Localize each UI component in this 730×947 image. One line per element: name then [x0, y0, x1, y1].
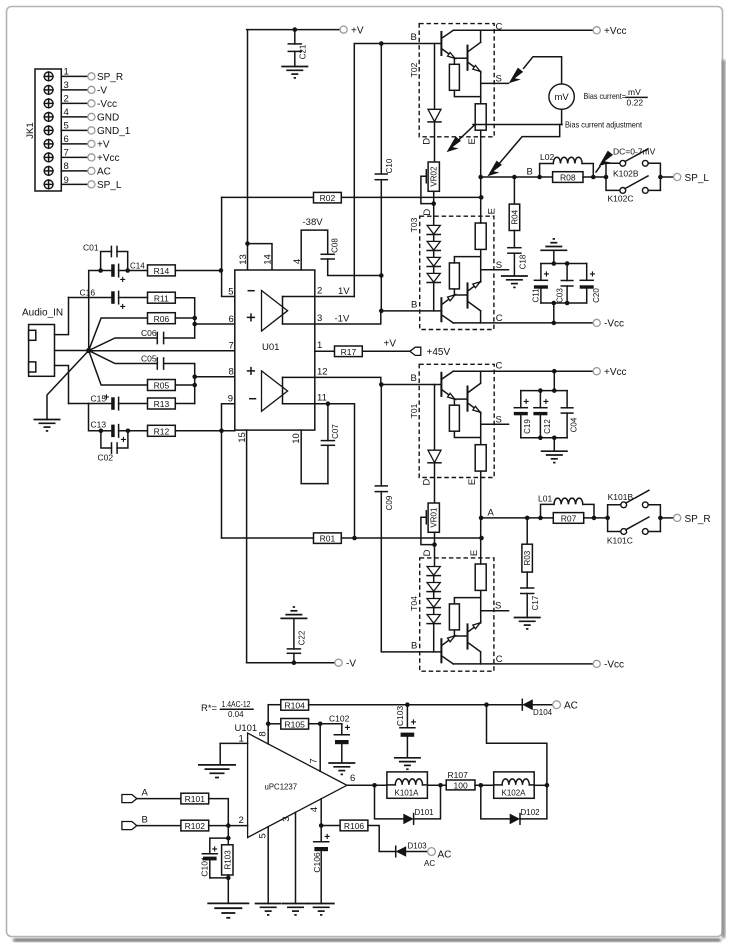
- svg-text:S: S: [495, 601, 501, 612]
- svg-text:A: A: [142, 788, 149, 799]
- svg-text:3: 3: [64, 80, 69, 91]
- terminal -Vcc (upper): [593, 319, 600, 326]
- wire pin11 output row: [283, 404, 355, 538]
- relay coil K102A: [494, 772, 535, 798]
- wire C19/C12/C04 top bus: [521, 390, 567, 392]
- wire R12 to lower feedback node: [175, 430, 235, 432]
- resistor R107: [446, 770, 494, 791]
- wire T04 emitter to S: [481, 611, 509, 623]
- svg-text:K102C: K102C: [608, 194, 634, 204]
- wire VR02 to T03 diode chain: [433, 191, 435, 225]
- pin 7 vertical: [319, 724, 321, 772]
- svg-text:VR01: VR01: [430, 507, 439, 528]
- svg-text:-38V: -38V: [303, 217, 324, 228]
- transistor T01 Q1: [441, 371, 455, 399]
- svg-text:R104: R104: [285, 700, 306, 710]
- JK1 pin contact symbols (circle-plus): [44, 72, 53, 189]
- wire T03 collector rail to -Vcc: [453, 322, 593, 324]
- wire C11/C03/C20 top bus: [541, 263, 587, 265]
- svg-text:R14: R14: [154, 266, 170, 276]
- wire pin3 output -1V to T03 base: [283, 311, 381, 324]
- relay switch K101B: [605, 490, 660, 531]
- svg-text:4: 4: [292, 259, 303, 264]
- wire bias current adjustment callout: [473, 124, 562, 126]
- svg-text:4: 4: [309, 807, 320, 812]
- wire R17 to +45V flag: [362, 350, 410, 352]
- capacitor C17: [521, 572, 540, 617]
- capacitor C18: [508, 231, 528, 277]
- terminal +Vcc (top): [593, 27, 600, 34]
- svg-text:K102A: K102A: [502, 789, 527, 798]
- node L02 left: [537, 175, 542, 180]
- wire C15 node down to C13 row: [89, 404, 101, 431]
- label R* formula: [201, 700, 253, 719]
- svg-text:L01: L01: [538, 494, 552, 504]
- wire output node row: [481, 176, 540, 178]
- capacitor C19: [514, 391, 532, 438]
- diode chain T04 (4 diodes): [427, 567, 440, 652]
- wire T03 base row: [381, 310, 442, 312]
- svg-text:+: +: [212, 844, 218, 855]
- op-amp A output bar: [282, 297, 284, 325]
- resistor R104: [268, 700, 522, 711]
- node R04 tap: [512, 175, 517, 180]
- svg-text:K101A: K101A: [395, 789, 420, 798]
- svg-text:+: +: [121, 435, 127, 446]
- probe arrow at S: [509, 68, 523, 84]
- node C13/C02 right: [126, 429, 131, 434]
- ground below C102: [328, 763, 355, 774]
- svg-text:5: 5: [258, 833, 269, 838]
- svg-text:2: 2: [317, 286, 322, 297]
- wire pin6 output row: [347, 784, 387, 786]
- node R06/bus: [192, 316, 197, 321]
- svg-text:L02: L02: [540, 152, 554, 162]
- resistor R101: [181, 793, 228, 825]
- connector JK1 body: [35, 69, 61, 191]
- wire T01 base row: [381, 384, 440, 386]
- JK1 net labels: [97, 72, 131, 191]
- svg-text:+: +: [120, 275, 126, 286]
- transistor T02 dashed box: [419, 24, 494, 137]
- frame bottom shadow: [13, 938, 721, 942]
- svg-text:6: 6: [64, 134, 69, 145]
- node pin6/bus: [192, 322, 197, 327]
- wire T01 emitter to S: [481, 412, 509, 424]
- svg-text:5: 5: [228, 287, 233, 298]
- pin 4 vertical: [320, 799, 322, 841]
- svg-text:R106: R106: [344, 821, 365, 831]
- capacitor C07: [321, 404, 339, 484]
- wire R11 to input bus upper: [175, 298, 194, 338]
- wire bottom bus to ground: [553, 438, 555, 451]
- wire star to pin7: [89, 350, 235, 352]
- wire star to ground: [47, 351, 89, 420]
- svg-text:0.22: 0.22: [627, 98, 644, 108]
- svg-text:GND: GND: [97, 113, 119, 124]
- capacitor C16: [69, 288, 148, 314]
- svg-text:C04: C04: [570, 417, 579, 432]
- probe arrow DC measurement: [599, 151, 613, 167]
- svg-text:+: +: [411, 718, 417, 729]
- resistor R103: [222, 845, 233, 878]
- node pin11 tap on R01 row: [352, 536, 357, 541]
- svg-text:SP_L: SP_L: [685, 173, 710, 184]
- wire lower feedback vertical pin9 to R01 row: [222, 404, 235, 538]
- svg-text:D101: D101: [415, 808, 435, 817]
- probe arrow at VR02: [447, 137, 461, 153]
- wire feedback vertical to R14 node and pin5: [222, 197, 235, 296]
- wire C10 bus upper: [380, 44, 382, 175]
- wire VR01 to T04 diode chain: [434, 532, 436, 566]
- svg-text:13: 13: [238, 254, 249, 265]
- svg-text:C17: C17: [531, 595, 540, 610]
- node pin4/R106: [319, 823, 324, 828]
- node R104/C103: [405, 702, 410, 707]
- ground pin5: [255, 904, 282, 915]
- transistor T04 dashed box: [420, 558, 494, 671]
- svg-text:-Vcc: -Vcc: [604, 660, 624, 671]
- svg-text:C09: C09: [385, 495, 394, 510]
- wire node A row: [481, 517, 541, 519]
- svg-text:+V: +V: [97, 140, 110, 151]
- resistor R08: [540, 172, 606, 183]
- meter mV: [549, 84, 574, 109]
- wire R05 row: [89, 351, 148, 386]
- svg-text:C22: C22: [298, 630, 307, 645]
- capacitor C12: [533, 391, 552, 438]
- ground pin2 network: [207, 903, 249, 917]
- wire C11/C03/C20 bottom bus: [541, 302, 587, 304]
- wire pin1 to ground: [219, 743, 221, 764]
- node R05/bus: [192, 383, 197, 388]
- resistor T01 emitter: [475, 424, 486, 518]
- node B rail / C10 bus: [379, 41, 384, 46]
- transistor T02 Q2: [455, 30, 481, 71]
- svg-text:B: B: [411, 641, 417, 652]
- svg-text:3: 3: [281, 816, 292, 821]
- svg-text:B: B: [411, 300, 417, 311]
- node star junction: [86, 348, 91, 353]
- node R01 row / E vertical: [479, 536, 484, 541]
- svg-text:3: 3: [317, 313, 322, 324]
- svg-text:R*=: R*=: [201, 703, 218, 714]
- terminal +V: [340, 26, 347, 33]
- capacitor C106: [312, 832, 331, 904]
- svg-text:U01: U01: [262, 342, 279, 353]
- svg-text:SP_R: SP_R: [685, 514, 711, 525]
- capacitor C101: [200, 838, 229, 878]
- svg-text:R04: R04: [510, 209, 519, 224]
- terminal -V: [335, 659, 342, 666]
- node pin13/pin14 jog: [245, 241, 250, 246]
- wire T01 collector rail to +Vcc: [453, 370, 593, 372]
- wire R05 to bus: [175, 384, 194, 386]
- resistor T03 base-emitter: [449, 257, 480, 295]
- svg-text:R103: R103: [223, 850, 232, 870]
- svg-text:-Vcc: -Vcc: [97, 99, 117, 110]
- node pin8/R105: [266, 722, 271, 727]
- svg-text:-V: -V: [346, 659, 356, 670]
- node T01 base / bus: [379, 382, 384, 387]
- pin 3 vertical to ground: [295, 812, 297, 903]
- capacitor C05: [89, 351, 195, 404]
- resistor R02: [314, 192, 342, 203]
- node pin11/C07: [326, 401, 331, 406]
- capacitor C102: [329, 713, 351, 762]
- svg-text:DC=0-7mV: DC=0-7mV: [613, 147, 656, 157]
- wire connector pin1 to C16 row: [55, 298, 69, 335]
- wire C08 to bus: [328, 259, 382, 276]
- terminal +Vcc (lower): [593, 368, 600, 375]
- svg-text:C01: C01: [83, 243, 99, 253]
- wire pin15 to -V rail: [246, 430, 248, 663]
- svg-text:12: 12: [317, 366, 328, 377]
- node A on E vertical: [479, 516, 484, 521]
- wire R14 to feedback node: [175, 270, 221, 272]
- svg-text:R107: R107: [448, 770, 469, 780]
- svg-text:1V: 1V: [338, 286, 350, 297]
- svg-text:+: +: [345, 723, 351, 734]
- capacitor C15: [69, 393, 148, 410]
- terminal SP_R: [674, 514, 681, 521]
- terminal flag +45V: [410, 347, 421, 355]
- svg-text:10: 10: [291, 433, 302, 444]
- input flag A: [122, 788, 181, 803]
- ground below C21: [281, 67, 308, 78]
- svg-text:9: 9: [228, 394, 233, 405]
- wire bottom bus to -Vcc rail: [553, 303, 555, 323]
- svg-text:U101: U101: [235, 723, 258, 734]
- wire T03 emitter to S: [481, 270, 509, 282]
- resistor R07: [541, 513, 608, 524]
- svg-text:+: +: [324, 832, 330, 843]
- svg-text:4: 4: [64, 107, 69, 118]
- svg-text:AC: AC: [564, 701, 578, 712]
- ground C106: [308, 904, 335, 915]
- svg-text:D: D: [422, 549, 433, 556]
- svg-text:D: D: [421, 138, 432, 145]
- svg-text:0.04: 0.04: [228, 710, 244, 719]
- resistor T02 base-emitter: [449, 58, 480, 96]
- resistor R17: [335, 346, 363, 357]
- relay switch K101C: [607, 517, 661, 546]
- node VR01 wiper: [432, 542, 437, 547]
- wire pin10 jog to C07: [301, 430, 328, 484]
- node pin6/D101: [372, 783, 377, 788]
- diode D104: [522, 699, 553, 717]
- svg-text:C15: C15: [91, 394, 107, 404]
- transistor T03 Q1: [441, 295, 455, 323]
- svg-text:2: 2: [239, 815, 244, 826]
- terminal AC (bottom): [428, 848, 436, 856]
- svg-text:D102: D102: [521, 808, 541, 817]
- svg-text:+: +: [523, 397, 529, 408]
- wire R01 to node A vertical: [341, 537, 481, 539]
- svg-text:C10: C10: [385, 158, 394, 173]
- svg-text:R11: R11: [154, 293, 169, 303]
- svg-text:R102: R102: [185, 821, 206, 831]
- resistor R03: [522, 518, 533, 572]
- wire R02 feedback row: [222, 196, 314, 198]
- svg-text:C21: C21: [299, 44, 308, 59]
- svg-text:E: E: [469, 550, 480, 556]
- wire connector pin2 to C15 row: [55, 366, 69, 404]
- resistor R102: [181, 820, 248, 831]
- svg-text:SP_R: SP_R: [97, 72, 123, 83]
- ground below C19/C12/C04: [541, 451, 568, 462]
- svg-text:D: D: [422, 209, 433, 216]
- node C13/C02 left: [99, 429, 104, 434]
- capacitor C13: [91, 420, 148, 447]
- svg-text:7: 7: [229, 341, 234, 352]
- diode T02: [428, 44, 441, 163]
- svg-text:T01: T01: [409, 403, 419, 418]
- svg-text:B: B: [527, 167, 533, 178]
- wire C09 bus (pin12 to T04 base): [380, 385, 382, 486]
- capacitor C14: [101, 262, 148, 287]
- diode D103: [396, 841, 428, 857]
- node pin7/R105: [318, 722, 323, 727]
- wire -V rail: [247, 662, 335, 664]
- svg-text:1: 1: [239, 734, 244, 745]
- wire R01 feedback row: [222, 537, 314, 539]
- svg-text:D: D: [421, 478, 432, 485]
- svg-text:uPC1237: uPC1237: [265, 782, 298, 792]
- capacitor C06: [89, 328, 195, 351]
- svg-text:Bias current=: Bias current=: [584, 91, 627, 101]
- svg-text:E: E: [467, 479, 478, 485]
- diode T01: [428, 385, 441, 504]
- relay switch K102C: [606, 176, 660, 204]
- resistor R13: [148, 398, 176, 409]
- JK1 pin terminals: [88, 73, 95, 188]
- svg-text:1: 1: [317, 340, 322, 351]
- op-amp B output bar: [282, 377, 284, 403]
- wire pin14 jog: [248, 244, 273, 270]
- svg-text:T03: T03: [409, 217, 419, 232]
- svg-text:A: A: [488, 508, 495, 519]
- svg-text:AC: AC: [97, 167, 111, 178]
- svg-text:R02: R02: [320, 193, 336, 203]
- svg-text:R03: R03: [523, 550, 532, 565]
- transistor T01 dashed box: [419, 364, 494, 477]
- node junction on +V rail: [293, 27, 298, 32]
- svg-text:mV: mV: [628, 87, 641, 97]
- resistor T02 emitter: [475, 83, 486, 177]
- wire connector mid to star node: [55, 350, 89, 352]
- svg-text:C13: C13: [91, 420, 107, 430]
- svg-text:R07: R07: [561, 514, 577, 524]
- svg-text:6: 6: [229, 314, 234, 325]
- wire T04 collector rail to -Vcc: [453, 663, 593, 665]
- wire R06 row: [89, 318, 148, 351]
- pin 1 wire and label: [220, 742, 247, 744]
- svg-text:C12: C12: [543, 419, 552, 434]
- probe arrow at node B: [488, 161, 502, 177]
- JK1 pin wires: [61, 76, 88, 184]
- svg-text:B: B: [142, 815, 148, 826]
- svg-text:7: 7: [64, 147, 69, 158]
- capacitor C20: [580, 264, 601, 304]
- svg-text:+Vcc: +Vcc: [97, 153, 120, 164]
- wire +V rail: [247, 29, 340, 31]
- wire R02 row to output node: [341, 196, 481, 198]
- wire C19/C12/C04 bottom bus: [521, 437, 567, 439]
- svg-text:K101C: K101C: [607, 536, 633, 546]
- svg-text:+: +: [590, 270, 596, 281]
- svg-text:R05: R05: [154, 381, 170, 391]
- capacitor C09: [375, 486, 394, 510]
- wire pin2 output 1V: [283, 296, 355, 298]
- svg-text:E: E: [467, 138, 478, 144]
- ground above C11/C03/C20 (inverted): [540, 239, 567, 250]
- op-amp U01 body: [235, 270, 315, 430]
- svg-text:T04: T04: [409, 596, 419, 611]
- relay switch K102B: [604, 149, 661, 191]
- ground above C22 (inverted): [280, 607, 307, 618]
- connector Audio_IN body: [29, 325, 55, 377]
- wire pin4 jog: [301, 230, 328, 270]
- svg-text:C14: C14: [130, 262, 145, 271]
- capacitor C04: [561, 391, 578, 438]
- svg-text:+V: +V: [351, 25, 364, 36]
- transistor T02 Q1: [441, 30, 455, 58]
- capacitor C10: [375, 158, 394, 180]
- inductor L02: [540, 152, 594, 177]
- wire to SP_R terminal: [660, 517, 673, 519]
- resistor R01: [314, 533, 342, 544]
- svg-text:1.4AC-12: 1.4AC-12: [222, 700, 251, 709]
- resistor R04: [509, 177, 520, 231]
- svg-text:K102B: K102B: [613, 169, 639, 179]
- resistor R05: [148, 380, 176, 391]
- wire bus to T04 base: [381, 492, 441, 652]
- svg-text:C102: C102: [329, 713, 350, 723]
- svg-text:E: E: [487, 208, 498, 214]
- svg-text:mV: mV: [554, 92, 569, 103]
- svg-text:C03: C03: [555, 288, 564, 303]
- diode chain T03 (4 diodes): [427, 225, 440, 311]
- op-amp B triangle: [262, 371, 288, 411]
- wire K101A to R107: [427, 784, 446, 786]
- svg-text:C07: C07: [331, 424, 340, 439]
- wire D104 node to K102A feed: [487, 705, 547, 786]
- transistor T03 dashed box: [420, 216, 494, 329]
- node C22/-V rail: [292, 660, 297, 665]
- pin 5 vertical to ground: [267, 827, 269, 904]
- capacitor C22: [287, 618, 306, 662]
- svg-text:Bias current adjustment: Bias current adjustment: [565, 120, 643, 130]
- transistor T04 Q1: [441, 636, 455, 664]
- svg-text:C02: C02: [98, 453, 114, 463]
- svg-text:D104: D104: [533, 708, 553, 717]
- wire K102A to feed: [534, 784, 547, 786]
- svg-text:R101: R101: [185, 794, 206, 804]
- svg-text:+Vcc: +Vcc: [604, 26, 627, 37]
- svg-text:C05: C05: [141, 354, 157, 364]
- wire gnd stem to cap bus: [553, 250, 555, 263]
- node R12/feedback: [219, 429, 224, 434]
- capacitor C11: [531, 264, 549, 304]
- svg-text:8: 8: [258, 731, 269, 736]
- svg-text:K101B: K101B: [608, 492, 634, 502]
- wire pin6: [195, 323, 235, 325]
- svg-text:R08: R08: [560, 173, 576, 183]
- pin 8 vertical: [267, 705, 269, 744]
- svg-text:+V: +V: [384, 339, 397, 350]
- capacitor C02 (parallel with C13): [98, 431, 128, 463]
